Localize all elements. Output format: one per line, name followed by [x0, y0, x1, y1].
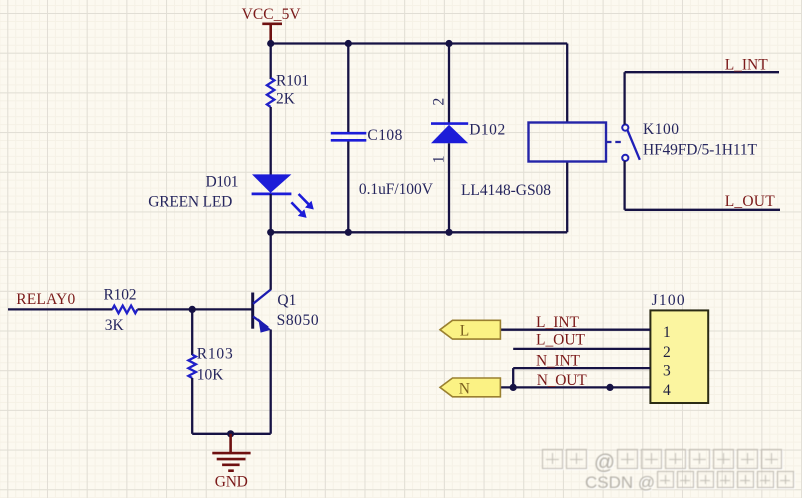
wire: R101 to LED D101 — [270, 107, 272, 175]
svg-text:R101: R101 — [276, 73, 309, 90]
power symbol VCC_5V — [262, 24, 282, 44]
svg-text:GND: GND — [215, 474, 248, 491]
junction: C108 at top rail — [345, 40, 352, 47]
wire: collector to bottom rail — [270, 232, 272, 289]
svg-text:LL4148-GS08: LL4148-GS08 — [461, 182, 551, 199]
wire: pin 3 link down to N wire — [512, 368, 514, 387]
svg-text:L: L — [460, 323, 469, 340]
wire: R103 tap down — [191, 309, 193, 355]
connector J100 body — [650, 310, 708, 403]
junction: pin3 link on N wire — [510, 384, 517, 391]
junction: D102 at top rail — [445, 40, 452, 47]
resistor R101 — [267, 78, 275, 107]
svg-text:N_INT: N_INT — [536, 353, 581, 370]
junction: N wire mid — [606, 384, 613, 391]
wire: pin 2 stub — [513, 348, 650, 350]
svg-text:2: 2 — [431, 98, 448, 106]
svg-text:10K: 10K — [197, 367, 225, 384]
LED D101 — [252, 174, 314, 218]
junction: D102 at bottom rail — [445, 229, 452, 236]
svg-text:S8050: S8050 — [277, 312, 319, 329]
wire: D102 to bottom rail — [448, 143, 450, 232]
wire: relay coil bottom drop — [566, 162, 568, 233]
svg-text:K100: K100 — [643, 121, 679, 138]
relay K100 coil box — [529, 123, 607, 162]
wire: bottom rail — [271, 231, 568, 233]
svg-text:L_INT: L_INT — [725, 56, 769, 73]
relay K100 dashed actuator link — [606, 141, 624, 143]
wire: L_OUT horizontal — [625, 209, 780, 211]
svg-text:L_INT: L_INT — [536, 314, 580, 331]
wire: pin 4 to port N — [500, 386, 650, 388]
svg-text:2K: 2K — [276, 91, 296, 108]
svg-text:3K: 3K — [105, 317, 125, 334]
svg-text:2: 2 — [663, 344, 671, 361]
wire: emitter down — [270, 330, 272, 434]
wire: L_OUT vertical from bottom contact — [623, 161, 625, 210]
diode D102 — [431, 124, 468, 144]
wire: top rail to R101 — [270, 44, 272, 80]
wire: top rail to D102 — [448, 44, 450, 125]
wire: R102 to Q1 base — [137, 308, 251, 310]
relay K100 contact circle bottom — [622, 155, 628, 161]
svg-text:N: N — [459, 381, 470, 398]
svg-text:R102: R102 — [104, 287, 137, 304]
wire: L_INT horizontal — [625, 71, 779, 73]
relay K100 contact circle top — [622, 125, 628, 131]
svg-text:VCC_5V: VCC_5V — [242, 6, 302, 23]
wire: pin 3 stub — [513, 367, 650, 369]
svg-text:1: 1 — [431, 156, 448, 164]
svg-text:N_OUT: N_OUT — [537, 372, 588, 389]
svg-text:3: 3 — [663, 363, 671, 380]
wire: RELAY0 to R102 — [8, 308, 113, 310]
transistor Q1 — [253, 289, 271, 332]
relay K100 switch arm — [628, 131, 640, 160]
svg-text:GREEN LED: GREEN LED — [148, 193, 232, 210]
svg-text:D102: D102 — [469, 121, 505, 138]
wire: C108 to bottom rail — [347, 142, 349, 233]
wire: relay coil top drop — [566, 44, 568, 123]
port N — [440, 378, 500, 397]
svg-text:L_OUT: L_OUT — [725, 193, 776, 210]
capacitor C108 — [331, 133, 367, 140]
ground symbol — [212, 434, 250, 471]
wire: pin 1 to port L — [500, 329, 650, 331]
junction: ground tap — [227, 430, 234, 437]
svg-text:D101: D101 — [206, 173, 239, 190]
resistor R102 — [112, 306, 137, 314]
svg-text:R103: R103 — [197, 346, 233, 363]
svg-text:RELAY0: RELAY0 — [16, 291, 75, 308]
svg-text:4: 4 — [663, 382, 671, 399]
junction: VCC at top rail — [267, 40, 274, 47]
wire: top rail — [271, 42, 568, 44]
port L — [440, 320, 500, 339]
svg-text:0.1uF/100V: 0.1uF/100V — [359, 181, 434, 198]
svg-text:J100: J100 — [652, 292, 685, 309]
junction: R103 tap — [189, 306, 196, 313]
resistor R103 — [188, 355, 196, 378]
svg-text:HF49FD/5-1H11T: HF49FD/5-1H11T — [643, 142, 758, 159]
svg-text:C108: C108 — [367, 127, 402, 144]
wire: top rail to C108 — [347, 44, 349, 133]
wire: ground rail — [192, 433, 271, 435]
wire: LED to bottom rail — [270, 194, 272, 232]
wire: R103 to ground rail — [191, 378, 193, 434]
junction: C108 at bottom rail — [345, 229, 352, 236]
wire: L_INT vertical to top contact — [623, 72, 625, 124]
svg-text:Q1: Q1 — [277, 292, 296, 309]
junction: LED at bottom rail — [267, 229, 274, 236]
svg-text:L_OUT: L_OUT — [536, 332, 586, 349]
svg-text:1: 1 — [663, 324, 671, 341]
